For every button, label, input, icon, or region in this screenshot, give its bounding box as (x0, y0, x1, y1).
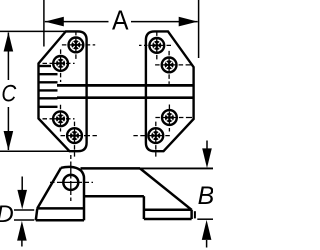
svg-text:A: A (112, 4, 129, 36)
svg-text:D: D (0, 201, 14, 228)
svg-text:C: C (1, 80, 16, 107)
svg-text:B: B (198, 182, 213, 210)
